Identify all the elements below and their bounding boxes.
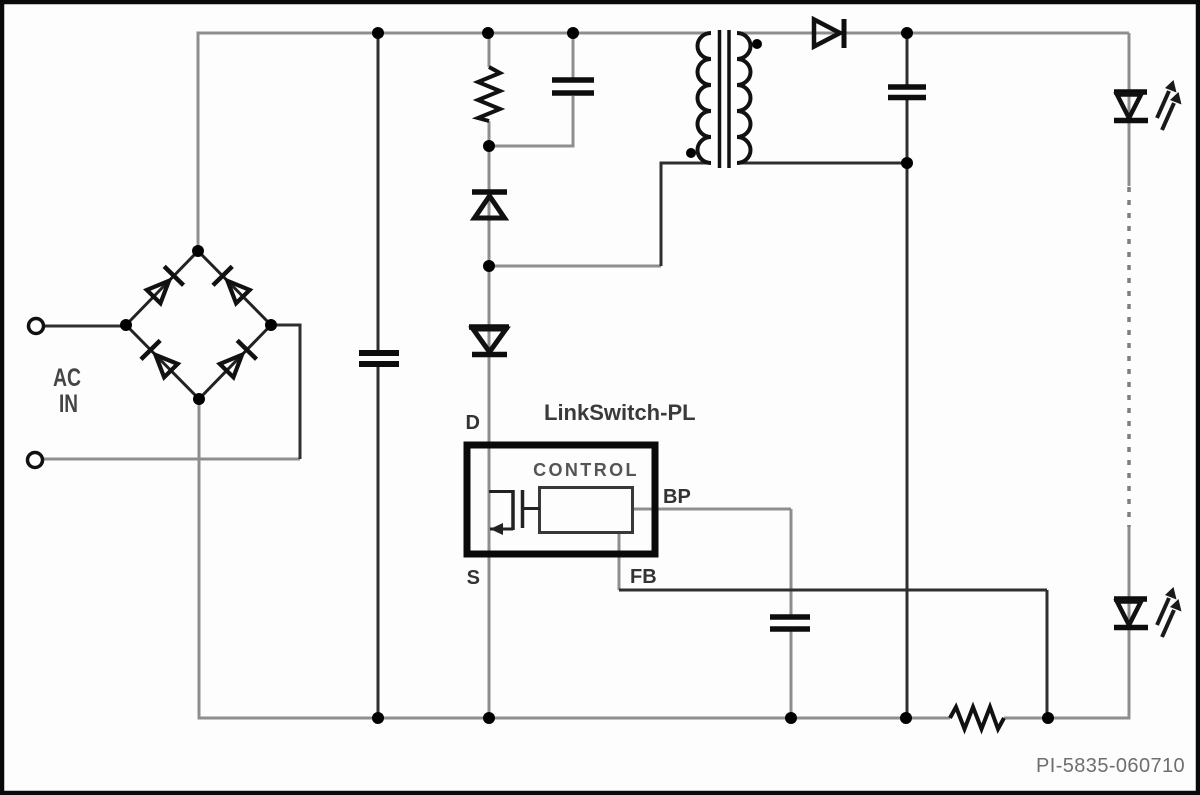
svg-text:IN: IN [59, 390, 78, 418]
svg-text:S: S [467, 567, 480, 589]
svg-text:FB: FB [630, 566, 657, 588]
svg-text:D: D [466, 412, 480, 434]
svg-text:BP: BP [663, 486, 691, 508]
svg-text:PI-5835-060710: PI-5835-060710 [1036, 755, 1185, 777]
svg-text:CONTROL: CONTROL [533, 460, 639, 480]
svg-text:LinkSwitch-PL: LinkSwitch-PL [544, 400, 696, 425]
svg-text:AC: AC [53, 364, 81, 392]
